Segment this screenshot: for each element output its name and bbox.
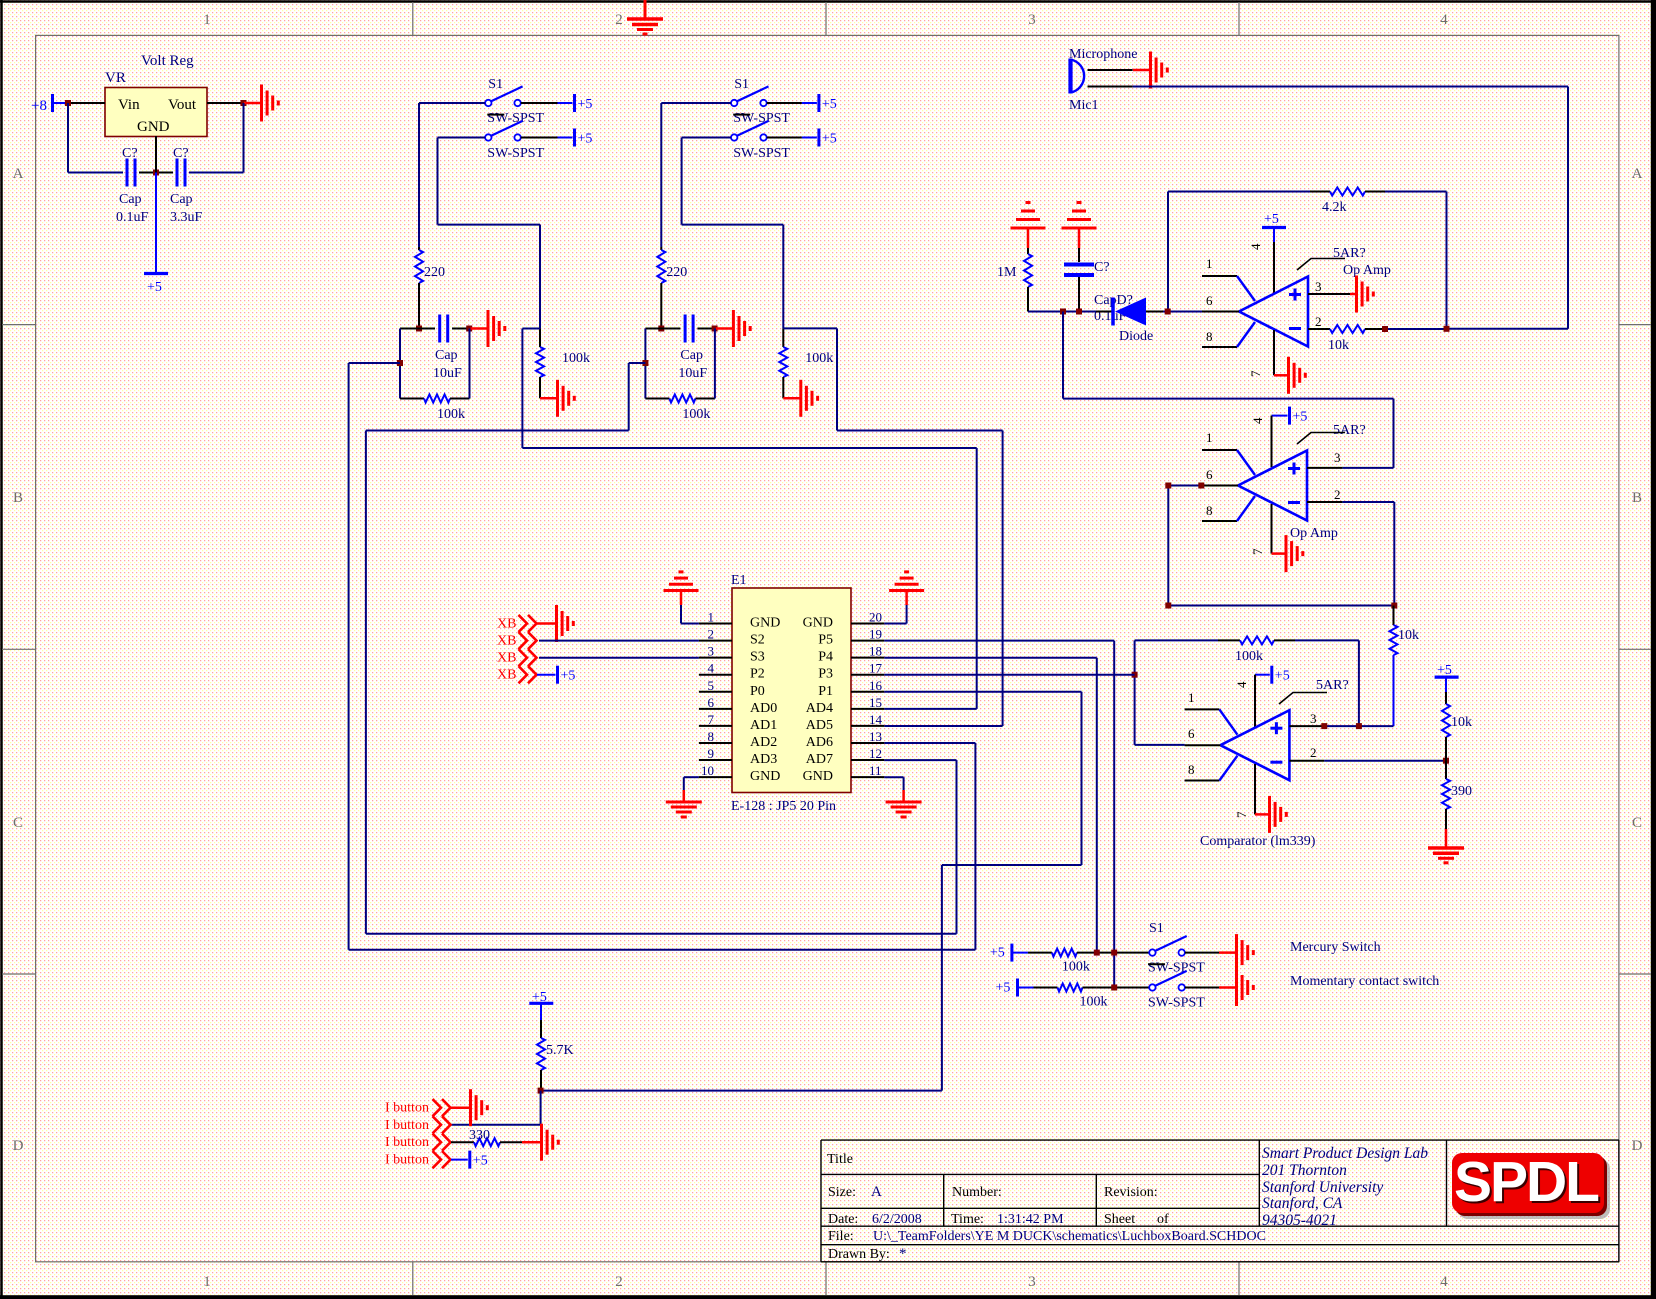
svg-text:C: C: [1632, 815, 1642, 831]
svg-text:2: 2: [708, 627, 715, 642]
wire comp -in to divider: [1324, 760, 1446, 762]
ground at I button 3: [522, 1141, 541, 1144]
pin mic bottom: [1088, 86, 1133, 88]
junction 5.7K node: [538, 1088, 544, 1094]
margin row ticks: [2, 324, 36, 326]
svg-text:Volt Reg: Volt Reg: [141, 53, 194, 69]
svg-text:S3: S3: [750, 650, 765, 665]
svg-text:6: 6: [708, 695, 715, 710]
svg-text:220: 220: [424, 265, 445, 280]
diode D?: [1096, 311, 1113, 313]
switch S1 SPST #2 (left): [485, 134, 491, 140]
svg-text:B: B: [1632, 490, 1642, 506]
svg-text:P1: P1: [818, 684, 833, 699]
ground at pin7 comparator: [1255, 813, 1269, 816]
junction P3/comp loop: [1132, 672, 1138, 678]
svg-text:6: 6: [1188, 726, 1195, 741]
wire mic signal: [1133, 86, 1568, 88]
wire XB2 to S2: [539, 640, 699, 642]
junction detector 2: [1076, 309, 1082, 315]
svg-text:11: 11: [869, 763, 882, 778]
svg-text:Drawn By:: Drawn By:: [828, 1247, 890, 1262]
junction Vout node: [241, 100, 247, 106]
margin column ticks: [412, 2, 414, 35]
svg-text:8: 8: [708, 729, 715, 744]
svg-text:GND: GND: [750, 616, 780, 631]
svg-text:Time:: Time:: [951, 1212, 984, 1227]
pin switch1 right (right): [767, 102, 802, 104]
wire switch2-right to AD5 net: [783, 327, 837, 329]
pin GND wire: [155, 136, 157, 173]
resistor 100k momentary row: [1034, 987, 1058, 989]
resistors XB braid: [519, 615, 528, 632]
pin switch right momentary row: [1185, 987, 1219, 989]
svg-text:201 Thornton: 201 Thornton: [1262, 1162, 1347, 1179]
svg-text:XB: XB: [497, 617, 516, 632]
wire +8 to Vin: [68, 102, 105, 104]
resistor 10k to comparator: [1393, 606, 1395, 626]
svg-text:3: 3: [1028, 12, 1036, 28]
junction cap right node (left): [466, 326, 472, 332]
svg-text:P2: P2: [750, 667, 765, 682]
wire P5 to mercury row2: [884, 640, 1114, 642]
wire 10k to comp +in: [1359, 725, 1394, 727]
svg-text:+5: +5: [561, 669, 576, 684]
svg-text:3: 3: [1315, 279, 1322, 294]
svg-text:10k: 10k: [1328, 338, 1349, 353]
svg-text:of: of: [1157, 1212, 1169, 1227]
wire switch2 route (left): [437, 138, 439, 225]
comparator U3 (5AR?): [1220, 710, 1289, 780]
svg-text:10: 10: [701, 763, 714, 778]
svg-text:100k: 100k: [437, 407, 465, 422]
svg-text:Cap: Cap: [119, 192, 142, 207]
ground at I button 1: [451, 1106, 470, 1109]
svg-text:390: 390: [1451, 784, 1472, 799]
svg-text:C?: C?: [1094, 260, 1110, 275]
svg-text:2: 2: [1334, 487, 1341, 502]
svg-text:D: D: [13, 1138, 24, 1154]
capacitor Cap 10uF (right): [645, 328, 680, 330]
svg-text:3: 3: [1028, 1274, 1036, 1290]
svg-text:12: 12: [869, 746, 882, 761]
svg-text:Stanford, CA: Stanford, CA: [1262, 1195, 1343, 1212]
junction 10k node: [1382, 326, 1388, 332]
svg-text:7: 7: [708, 712, 715, 727]
ground at XB1: [537, 622, 556, 625]
wire comp +in: [1324, 725, 1359, 727]
resistor 220 (left): [418, 247, 420, 250]
svg-text:1M: 1M: [997, 265, 1017, 280]
switch S1 SPST #2 (right): [731, 134, 737, 140]
svg-text:6: 6: [1206, 467, 1213, 482]
ground above pin20 E1: [889, 589, 924, 592]
junction cap tap node (right): [642, 360, 648, 366]
junction momentary row: [1111, 985, 1117, 991]
ground at mic: [1133, 69, 1150, 72]
power port +5 switch1 (right): [817, 94, 820, 112]
svg-text:AD7: AD7: [806, 752, 833, 767]
svg-text:AD5: AD5: [806, 718, 833, 733]
svg-text:C?: C?: [122, 146, 138, 161]
svg-text:1: 1: [1188, 690, 1195, 705]
svg-text:5AR?: 5AR?: [1316, 678, 1349, 693]
svg-text:2: 2: [615, 12, 623, 28]
svg-text:3: 3: [708, 644, 715, 659]
svg-text:I button: I button: [385, 1118, 429, 1133]
svg-text:SPDL: SPDL: [1454, 1150, 1599, 1214]
power port +5 comparator: [1255, 674, 1270, 676]
svg-text:AD0: AD0: [750, 701, 777, 716]
svg-text:Revision:: Revision:: [1104, 1185, 1158, 1200]
junction U2 -in 1: [1165, 483, 1171, 489]
svg-text:Smart Product Design Lab: Smart Product Design Lab: [1262, 1145, 1428, 1162]
svg-text:6: 6: [1206, 293, 1213, 308]
svg-text:GND: GND: [750, 769, 780, 784]
resistor 330: [451, 1141, 474, 1143]
svg-text:1: 1: [1206, 430, 1213, 445]
voltage regulator VR body: [105, 88, 207, 137]
svg-text:100k: 100k: [562, 351, 590, 366]
svg-text:+5: +5: [1275, 669, 1290, 684]
svg-text:AD6: AD6: [806, 735, 833, 750]
wire to switch1 (left): [419, 102, 485, 104]
svg-text:AD3: AD3: [750, 752, 777, 767]
wire to switch1 (right): [661, 102, 731, 104]
capacitor C? 0.1uF: [126, 159, 129, 187]
wire GND to +5: [155, 173, 157, 274]
svg-text:Diode: Diode: [1119, 329, 1153, 344]
resistor 100k parallel (left): [399, 329, 401, 399]
ground below 390: [1445, 829, 1448, 847]
svg-text:VR: VR: [105, 70, 126, 86]
wire diode to pin6 U1: [1163, 311, 1202, 313]
svg-text:4: 4: [1234, 681, 1249, 688]
svg-text:+5: +5: [147, 280, 162, 295]
resistor 10k divider: [1445, 692, 1447, 704]
svg-text:AD4: AD4: [806, 701, 833, 716]
SPDL logo: [1458, 1159, 1610, 1219]
svg-text:14: 14: [869, 712, 883, 727]
svg-text:100k: 100k: [682, 407, 710, 422]
svg-text:P0: P0: [750, 684, 765, 699]
svg-text:1: 1: [1206, 256, 1213, 271]
power port +5 below VR: [144, 272, 168, 275]
svg-text:6/2/2008: 6/2/2008: [872, 1212, 922, 1227]
svg-text:9: 9: [708, 746, 715, 761]
junction U2 out left: [1165, 603, 1171, 609]
ground above C?: [1062, 227, 1097, 230]
switch S1 momentary row: [1149, 984, 1155, 990]
svg-text:Title: Title: [827, 1152, 853, 1167]
svg-text:1:31:42 PM: 1:31:42 PM: [997, 1212, 1064, 1227]
svg-text:GND: GND: [803, 616, 833, 631]
ground above pin1 E1: [664, 589, 699, 592]
wire cap2 tap to AD7 net: [629, 362, 646, 364]
svg-text:100k: 100k: [805, 351, 833, 366]
ground below pin10 E1: [684, 776, 699, 778]
svg-text:P3: P3: [818, 667, 833, 682]
junction mercury row1 a: [1094, 950, 1100, 956]
svg-text:Stanford University: Stanford University: [1262, 1179, 1383, 1196]
svg-text:Cap: Cap: [170, 192, 193, 207]
wire switch2 route (right): [681, 138, 683, 225]
svg-text:Comparator (lm339): Comparator (lm339): [1200, 834, 1316, 849]
power port +5 XB4: [537, 674, 556, 676]
svg-text:Mercury Switch: Mercury Switch: [1290, 940, 1381, 955]
svg-text:Size:: Size:: [828, 1185, 856, 1200]
svg-text:D: D: [1632, 1138, 1643, 1154]
svg-text:+8: +8: [31, 98, 47, 114]
pin switch right mercury row: [1185, 952, 1219, 954]
ground at pin7 U2: [1272, 552, 1286, 555]
svg-text:+5: +5: [1264, 212, 1279, 227]
svg-text:4.2k: 4.2k: [1322, 200, 1347, 215]
power port +5 switch2 (left): [573, 129, 576, 147]
svg-text:4: 4: [708, 661, 715, 676]
svg-text:100k: 100k: [1080, 995, 1108, 1010]
svg-text:I button: I button: [385, 1153, 429, 1168]
op-amp U2 (5AR?): [1238, 451, 1307, 521]
switch S1 mercury row: [1149, 949, 1155, 955]
junction comp +in a: [1321, 723, 1327, 729]
svg-text:I button: I button: [385, 1101, 429, 1116]
ground mercury row: [1219, 951, 1236, 954]
wire cap1 tap to AD6 net: [349, 362, 400, 364]
svg-text:5.7K: 5.7K: [546, 1043, 574, 1058]
wire detector to U2 +in: [1062, 312, 1064, 399]
svg-text:17: 17: [869, 661, 883, 676]
svg-text:1: 1: [203, 12, 211, 28]
ground at pin7 U1: [1274, 374, 1288, 377]
svg-text:XB: XB: [497, 668, 516, 683]
svg-text:GND: GND: [137, 119, 170, 135]
svg-text:5: 5: [708, 678, 715, 693]
svg-text:5AR?: 5AR?: [1333, 423, 1366, 438]
svg-text:C: C: [13, 815, 23, 831]
junction divider node: [1443, 758, 1449, 764]
ground momentary row: [1219, 986, 1236, 989]
svg-text:8: 8: [1188, 762, 1195, 777]
svg-text:+5: +5: [996, 981, 1011, 996]
svg-text:4: 4: [1440, 12, 1448, 28]
junction +8 node: [65, 100, 71, 106]
svg-text:SW-SPST: SW-SPST: [733, 146, 790, 161]
svg-text:3.3uF: 3.3uF: [170, 210, 203, 225]
svg-text:File:: File:: [828, 1229, 854, 1244]
svg-text:7: 7: [1234, 811, 1249, 818]
wire Vin to cap C? left: [67, 103, 69, 173]
svg-text:C?: C?: [173, 146, 189, 161]
wire 4.2k right leg: [1446, 192, 1448, 329]
svg-text:220: 220: [666, 265, 687, 280]
svg-text:GND: GND: [803, 769, 833, 784]
capacitor C? 3.3uF: [176, 159, 179, 187]
svg-text:94305-4021: 94305-4021: [1262, 1212, 1337, 1229]
svg-text:Microphone: Microphone: [1069, 47, 1137, 62]
svg-text:XB: XB: [497, 651, 516, 666]
svg-text:2: 2: [1310, 745, 1317, 760]
power port +5 switch2 (right): [817, 129, 820, 147]
svg-text:16: 16: [869, 678, 883, 693]
svg-text:+5: +5: [578, 97, 593, 112]
pin Vout wire: [207, 102, 244, 104]
junction mercury row1 b: [1111, 950, 1117, 956]
svg-text:Number:: Number:: [952, 1185, 1002, 1200]
svg-text:8: 8: [1206, 329, 1213, 344]
svg-text:Date:: Date:: [828, 1212, 858, 1227]
title block grid: [821, 1139, 1619, 1141]
junction 220/cap node (right): [658, 326, 664, 332]
pin mic top: [1088, 69, 1133, 71]
svg-text:SW-SPST: SW-SPST: [487, 146, 544, 161]
ground at cap (right): [716, 327, 733, 330]
svg-text:Op Amp: Op Amp: [1290, 526, 1338, 541]
wire to switch2 (left): [438, 137, 486, 139]
wire to switch2 (right): [682, 137, 731, 139]
capacitor Cap 10uF (left): [400, 328, 435, 330]
ground above 1M: [1011, 227, 1046, 230]
svg-text:330: 330: [469, 1128, 490, 1143]
svg-text:+5: +5: [822, 132, 837, 147]
ground at Vout: [244, 102, 261, 105]
resistor 4.2k feedback: [1168, 191, 1310, 193]
ground (top margin, net of sheet): [644, 0, 647, 19]
svg-text:0.1uF: 0.1uF: [116, 210, 149, 225]
wire comparator -in loop: [1134, 640, 1136, 745]
svg-text:Vout: Vout: [168, 97, 197, 113]
wire momentary row junction to switch: [1097, 987, 1149, 989]
junction U2 out right: [1391, 603, 1397, 609]
junction comp +in b: [1356, 723, 1362, 729]
svg-text:B: B: [13, 490, 23, 506]
svg-text:7: 7: [1250, 548, 1265, 555]
junction 220/cap node (left): [416, 326, 422, 332]
wire P1 to button net: [884, 691, 1081, 693]
svg-text:S1: S1: [1149, 921, 1164, 936]
connector E1 body: [732, 588, 851, 793]
svg-text:100k: 100k: [1062, 960, 1090, 975]
sheet outer border: [0, 0, 1656, 3]
wire switch1 down (right): [660, 103, 662, 247]
svg-text:P4: P4: [818, 650, 833, 665]
svg-text:10k: 10k: [1451, 715, 1472, 730]
svg-text:E1: E1: [731, 573, 747, 588]
svg-text:SW-SPST: SW-SPST: [1148, 961, 1205, 976]
pin switch1 right (left): [521, 102, 558, 104]
wire mercury row junction to switch: [1097, 952, 1149, 954]
svg-text:13: 13: [869, 729, 882, 744]
svg-text:A: A: [13, 166, 24, 182]
power port +5 I button 4: [451, 1159, 468, 1161]
svg-text:2: 2: [615, 1274, 623, 1290]
svg-text:Mic1: Mic1: [1069, 98, 1099, 113]
svg-text:20: 20: [869, 610, 882, 625]
ground under pulldown (right): [783, 397, 800, 400]
resistor 100k parallel (right): [644, 329, 646, 399]
svg-text:10k: 10k: [1398, 628, 1419, 643]
svg-text:4: 4: [1248, 243, 1263, 250]
svg-text:+5: +5: [578, 132, 593, 147]
resistor 220 (right): [660, 247, 662, 250]
resistor 1M: [1027, 227, 1030, 248]
svg-text:Vin: Vin: [118, 97, 140, 113]
svg-text:A: A: [871, 1184, 882, 1200]
wire U2 feedback loop: [1342, 501, 1394, 503]
svg-text:U:\_TeamFolders\YE M DUCK\sche: U:\_TeamFolders\YE M DUCK\schematics\Luc…: [873, 1229, 1266, 1244]
svg-text:E-128 : JP5 20 Pin: E-128 : JP5 20 Pin: [731, 799, 836, 814]
svg-text:+5: +5: [1293, 410, 1308, 425]
svg-text:+5: +5: [473, 1154, 488, 1169]
capacitor C? 0.1uF (CapD?): [1078, 227, 1081, 248]
switch S1 SPST #1 (left): [485, 100, 491, 106]
junction cap tap node (left): [397, 360, 403, 366]
svg-text:S2: S2: [750, 633, 765, 648]
ground under pulldown (left): [540, 397, 557, 400]
resistor 100k pulldown (left): [539, 328, 541, 347]
svg-text:AD2: AD2: [750, 735, 777, 750]
svg-text:4: 4: [1250, 417, 1265, 424]
resistor 100k pulldown (right): [782, 328, 784, 347]
svg-text:100k: 100k: [1235, 649, 1263, 664]
svg-text:S1: S1: [488, 77, 503, 92]
wire 5.7K to I button 2: [540, 1091, 542, 1125]
wire 4.2k left leg: [1167, 192, 1169, 312]
switch S1 SPST #1 (right): [731, 100, 737, 106]
wire detector node: [1028, 311, 1096, 313]
power port +5 op-amp U2: [1272, 415, 1288, 417]
svg-text:P5: P5: [818, 633, 833, 648]
svg-text:3: 3: [1310, 711, 1317, 726]
ground at pin3 U1: [1350, 293, 1356, 296]
svg-text:+5: +5: [990, 946, 1005, 961]
resistor 100k mercury row: [1028, 952, 1052, 954]
svg-text:Cap: Cap: [435, 348, 458, 363]
svg-text:4: 4: [1440, 1274, 1448, 1290]
svg-text:Sheet: Sheet: [1104, 1212, 1135, 1227]
svg-text:+5: +5: [822, 97, 837, 112]
junction feedback node: [1444, 326, 1450, 332]
svg-text:1: 1: [708, 610, 715, 625]
wire P3 to comparator: [884, 674, 1134, 676]
svg-text:3: 3: [1334, 450, 1341, 465]
svg-text:A: A: [1632, 166, 1643, 182]
svg-text:AD1: AD1: [750, 718, 777, 733]
wire switch1 down (left): [418, 103, 420, 247]
wire caps center: [139, 172, 173, 174]
junction GND node: [153, 170, 159, 176]
svg-text:19: 19: [869, 627, 882, 642]
svg-text:1: 1: [203, 1274, 211, 1290]
resistors I button braid: [433, 1099, 442, 1116]
wire 10k to feedback: [1385, 328, 1447, 330]
svg-text:8: 8: [1206, 503, 1213, 518]
ground at cap (left): [471, 327, 488, 330]
svg-text:2: 2: [1315, 314, 1322, 329]
svg-text:S1: S1: [734, 77, 749, 92]
svg-text:7: 7: [1248, 370, 1263, 377]
resistor 100k comparator: [1135, 639, 1218, 641]
wire P4 to mercury row1: [884, 657, 1097, 659]
junction detector 1: [1060, 309, 1066, 315]
junction U2 -in 2: [1198, 483, 1204, 489]
svg-text:Op Amp: Op Amp: [1343, 263, 1391, 278]
junction cap right node (right): [712, 326, 718, 332]
wire 100k right leg: [1358, 640, 1360, 726]
svg-text:SW-SPST: SW-SPST: [1148, 996, 1205, 1011]
wire cap C? 3.3uF to Vout: [189, 172, 244, 174]
svg-text:XB: XB: [497, 634, 516, 649]
